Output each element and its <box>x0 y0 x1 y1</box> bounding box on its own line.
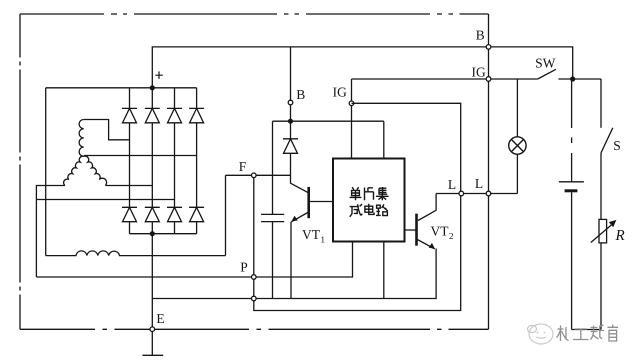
wire B row from + node to terminal B and battery branch <box>152 47 572 88</box>
wire phase 3 tap to diode column 2 <box>105 185 152 187</box>
wire phase 1 tap to diode column 1 <box>84 120 130 140</box>
terminal B regulator <box>288 90 304 105</box>
wire phase 2 run to diode column 3 and P row <box>36 186 174 277</box>
wire E vertical to terminal E <box>151 234 153 356</box>
wire diode column 1 <box>129 88 131 234</box>
wire + rail <box>46 87 197 89</box>
stator winding left slope coil <box>64 156 84 185</box>
stator winding right slope coil <box>84 156 107 185</box>
terminal E <box>150 314 164 331</box>
terminal IG regulator <box>333 88 354 106</box>
wire P row to regulator <box>36 242 352 278</box>
stator phase winding 1 (vertical coil) <box>79 120 84 157</box>
terminal IG alternator <box>472 68 491 82</box>
wire IG row with switch gap <box>352 78 602 80</box>
wire IC pin B (top right) <box>383 121 385 158</box>
alternator case border right (solid, through terminals) <box>488 14 490 329</box>
wire diode column 4 <box>196 88 198 234</box>
switch SW <box>536 59 556 79</box>
wire diode to F node and VT1 collector <box>290 153 308 192</box>
diode D8 (lower row) <box>189 207 204 221</box>
wire IC pin E (bottom right) <box>383 242 385 299</box>
terminal L regulator <box>448 180 463 196</box>
wire F lead up to F row <box>225 175 227 255</box>
battery feed (dash-dot) <box>571 79 573 182</box>
wire regulator B branch row <box>273 120 384 122</box>
capacitor C <box>261 121 284 298</box>
glyph 片 <box>365 188 374 201</box>
wire B+ feed to field winding <box>45 88 47 256</box>
switch S <box>601 128 620 153</box>
field (rotor) winding <box>46 251 226 256</box>
node regulator B junction <box>288 119 293 124</box>
wire regulator connector column F-P-E <box>254 178 461 311</box>
wire regulator B drop from B row <box>290 47 292 139</box>
freewheel diode VD <box>283 139 298 154</box>
resistor R (variable) <box>591 219 625 243</box>
diode D2 (upper row) <box>145 108 160 122</box>
terminal P <box>241 263 256 280</box>
wire resistor to battery negative row <box>572 243 601 330</box>
diode D6 (lower row) <box>145 207 160 221</box>
wire diode column 3 <box>174 88 176 234</box>
diode D4 (upper row) <box>189 108 204 122</box>
watermark logo <box>528 324 554 344</box>
alternator case border top (dash-dot) <box>20 13 489 15</box>
node + (junction dot at rectifier output) <box>150 71 163 90</box>
transistor VT2 <box>405 194 454 249</box>
terminal L alternator <box>475 179 491 196</box>
node SW-battery junction <box>570 76 575 81</box>
wire rectifier bottom rail <box>130 233 197 235</box>
diode D7 (lower row) <box>167 207 182 221</box>
wire IC pin IG (top left) <box>351 79 353 159</box>
glyph 路 <box>376 204 388 215</box>
node rectifier ground junction <box>150 231 155 236</box>
transistor VT1 <box>291 187 333 299</box>
terminal F <box>239 162 256 177</box>
glyph 集 <box>376 187 389 200</box>
alternator case border left (dash-dot) <box>19 14 21 329</box>
wire neutral tap to diode column 4 <box>84 155 197 157</box>
diode D5 (lower row) <box>122 207 137 221</box>
wire S to resistor <box>600 153 602 220</box>
terminal B alternator <box>476 31 491 50</box>
wire L row <box>436 193 517 195</box>
diode D1 (upper row) <box>122 108 137 122</box>
ground symbol at E <box>142 354 163 356</box>
terminal E regulator <box>252 296 257 301</box>
IC box (single-chip integrated circuit) <box>333 159 405 242</box>
watermark text 机工教育 <box>557 325 619 341</box>
IC label text 单片集成电路 (hand-drawn glyphs) <box>350 187 389 217</box>
wire diode column 2 <box>151 88 153 234</box>
wire S branch down <box>600 79 602 128</box>
glyph 成 <box>350 204 363 217</box>
glyph 电 <box>365 204 374 215</box>
lamp (charge indicator) <box>509 79 526 194</box>
wire F row <box>226 174 291 176</box>
battery <box>559 182 584 330</box>
diode D3 (upper row) <box>167 108 182 122</box>
glyph 单 <box>350 187 362 200</box>
wire IG2 row to L column <box>352 103 461 191</box>
wire ground row <box>152 249 436 299</box>
alternator case border bottom (dash-dot) <box>20 328 489 330</box>
